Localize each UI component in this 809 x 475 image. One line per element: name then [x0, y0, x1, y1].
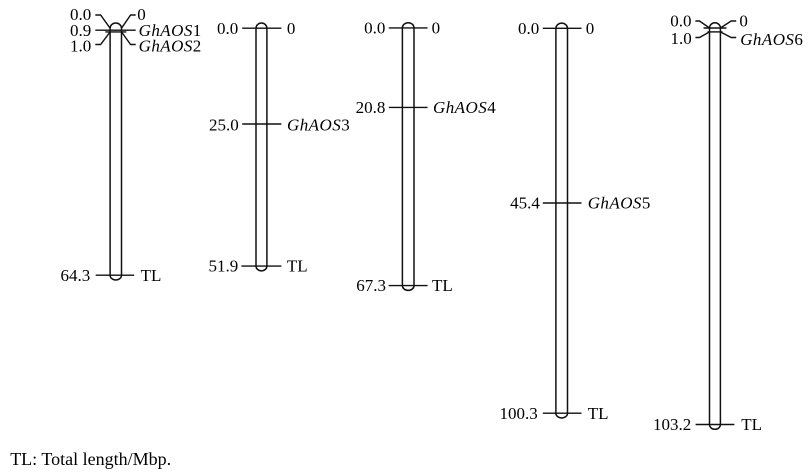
chr3 tick GhAOS4 20.8 — [389, 106, 428, 108]
svg-text:GhAOS6: GhAOS6 — [740, 30, 803, 49]
chr3 tick 0.0 — [389, 27, 428, 29]
svg-text:51.9: 51.9 — [209, 256, 239, 275]
chr5 leader 0.0 left — [695, 21, 709, 28]
chr1 leader 1.0 left — [95, 32, 110, 45]
svg-text:TL: TL — [432, 276, 453, 295]
svg-text:GhAOS5: GhAOS5 — [588, 194, 651, 213]
chr1 bottom tick TL — [96, 274, 135, 276]
svg-text:0: 0 — [287, 19, 296, 38]
chr5 bottom tick TL — [696, 424, 735, 426]
chr4 bottom tick TL — [543, 412, 582, 414]
svg-text:0: 0 — [586, 19, 595, 38]
svg-text:0: 0 — [432, 19, 441, 38]
chr4 tick GhAOS5 45.4 — [543, 202, 582, 204]
chr5 tick 0.0 — [704, 27, 727, 29]
svg-text:45.4: 45.4 — [510, 194, 540, 213]
svg-text:0: 0 — [739, 12, 748, 31]
chr1 leader 0.0 left — [95, 15, 110, 28]
chr2 tick GhAOS3 25.0 — [242, 123, 281, 125]
chromosome 3 bar (capsule) — [402, 23, 414, 291]
svg-text:TL: TL — [141, 266, 162, 285]
chr5 tick 1.0 GhAOS6 — [708, 31, 723, 33]
svg-text:20.8: 20.8 — [356, 98, 386, 117]
chromosome 1 bar (capsule) — [110, 23, 121, 280]
chr2 bottom tick TL — [241, 265, 281, 267]
chr5 leader 1.0 left — [695, 32, 709, 38]
svg-text:0.0: 0.0 — [518, 19, 539, 38]
chr4 tick 0.0 — [543, 27, 582, 29]
svg-text:1.0: 1.0 — [70, 37, 91, 56]
chr2 tick 0.0 — [242, 27, 281, 29]
svg-text:TL: Total length/Mbp.: TL: Total length/Mbp. — [10, 449, 171, 469]
svg-text:103.2: 103.2 — [653, 415, 691, 434]
svg-text:GhAOS4: GhAOS4 — [433, 98, 496, 117]
svg-text:1.0: 1.0 — [671, 29, 692, 48]
chr1 leader 0 right — [122, 15, 136, 28]
svg-text:TL: TL — [287, 256, 308, 275]
chromosome 2 bar (capsule) — [256, 23, 267, 271]
svg-text:TL: TL — [588, 404, 609, 423]
chr5 leader 0 right — [720, 21, 736, 28]
svg-text:GhAOS2: GhAOS2 — [139, 37, 202, 56]
svg-text:0.0: 0.0 — [364, 19, 385, 38]
chr5 leader GhAOS6 right — [720, 32, 736, 38]
svg-text:67.3: 67.3 — [356, 276, 386, 295]
svg-text:100.3: 100.3 — [499, 404, 537, 423]
svg-text:25.0: 25.0 — [209, 115, 239, 134]
svg-text:64.3: 64.3 — [61, 266, 91, 285]
svg-text:0.0: 0.0 — [217, 19, 238, 38]
svg-text:0.0: 0.0 — [670, 12, 691, 31]
chr1 tick 0.9 / GhAOS1 full leader line — [95, 29, 135, 31]
chr3 bottom tick TL — [389, 285, 428, 287]
chr1 tick 1.0 — [105, 31, 126, 33]
chromosome 4 bar (capsule) — [556, 23, 568, 418]
svg-text:TL: TL — [741, 415, 762, 434]
chr1 leader GhAOS2 right — [122, 32, 136, 45]
svg-text:GhAOS3: GhAOS3 — [287, 115, 350, 134]
chromosome 5 bar (capsule) — [710, 23, 721, 430]
